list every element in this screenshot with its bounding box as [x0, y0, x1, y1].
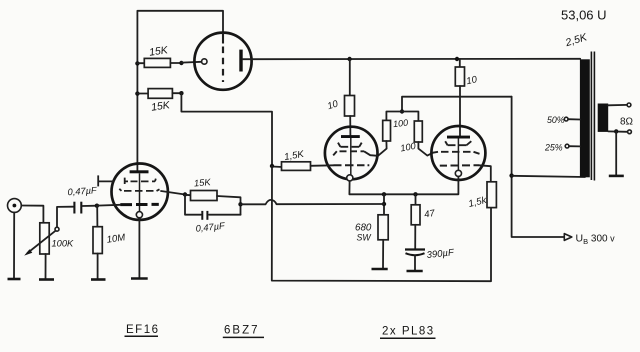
svg-text:2x PL83: 2x PL83	[382, 326, 435, 338]
node B+ rail / PL83 no.2 anode feed	[455, 57, 459, 61]
wire feedback loop (grid node down, along bottom, up to 1,5k)	[272, 166, 491, 281]
g3 bracket PL83 no.1	[338, 143, 362, 147]
node screen network right junction	[238, 202, 242, 206]
resistor R 1,5K (PL83 no.1 grid)	[272, 149, 334, 171]
resistor R 680 SW (cathode bias)	[355, 194, 388, 269]
svg-text:0,47µF: 0,47µF	[195, 221, 226, 234]
svg-text:100: 100	[393, 118, 409, 130]
g2 dashes PL83 no.1	[333, 151, 378, 156]
node B+ / primary bottom junction	[509, 173, 513, 177]
svg-text:0,47µF: 0,47µF	[67, 185, 98, 197]
capacitor C 390uF (electrolytic)	[405, 247, 455, 271]
ground (10M)	[91, 278, 106, 281]
resistor R 1,5k (PL83 no.2 grid, vertical)	[467, 165, 496, 210]
svg-text:100: 100	[399, 141, 417, 154]
svg-text:UB 300 v: UB 300 v	[576, 233, 616, 247]
resistor R 10 (PL83 no.2 anode)	[455, 59, 478, 136]
wire wiper to coupling cap	[57, 207, 73, 228]
wire screen-grid B+ feed (horizontal, crosses no.2 anode wire)	[402, 97, 512, 112]
svg-text:10: 10	[465, 74, 478, 87]
g3 row EF16	[125, 178, 156, 184]
tap 25%	[544, 143, 580, 153]
anode bar EF16	[130, 170, 149, 173]
label 2x PL83	[380, 326, 436, 339]
node grid-drive junction	[270, 164, 274, 168]
svg-text:10: 10	[326, 98, 340, 112]
g1 dashes PL83 no.2	[440, 164, 479, 166]
node anode rail / 15K upper junction	[135, 61, 139, 65]
svg-text:53,06 U: 53,06 U	[561, 8, 607, 23]
tube PL83 no.2	[431, 126, 485, 180]
resistor R 100 (screen, PL83 no.2)	[399, 112, 433, 156]
svg-text:390µF: 390µF	[426, 247, 455, 261]
node 680 top / feedback tap	[382, 202, 386, 206]
input jack J1	[7, 199, 43, 279]
wire B+ vertical to UB arrow	[512, 97, 565, 237]
wire PL83 cathode rail	[349, 177, 458, 195]
svg-text:15K: 15K	[148, 44, 169, 59]
svg-text:100K: 100K	[52, 239, 75, 249]
node 15K lower right junction	[179, 91, 183, 95]
g3 bracket PL83 no.2	[445, 141, 471, 145]
svg-text:25%: 25%	[544, 143, 563, 153]
resistor R 47 (cathode)	[411, 194, 436, 249]
node cathode rail / 47 branch	[413, 192, 417, 196]
grid (dashed) of 6BZ7	[222, 33, 224, 44]
g1 row EF16 (thick)	[120, 203, 159, 206]
ground (680 SW)	[372, 268, 388, 271]
resistor R 15K (upper)	[137, 44, 181, 67]
tap 50%	[547, 115, 580, 125]
secondary output terminals 8 ohm	[608, 103, 633, 134]
svg-text:15K: 15K	[150, 99, 171, 114]
node secondary ground junction	[614, 129, 618, 133]
svg-text:10M: 10M	[106, 232, 126, 245]
node B+ rail / PL83 no.1 anode feed	[347, 57, 351, 61]
node screen network left junction	[183, 192, 187, 196]
anode bar of 6BZ7	[239, 50, 242, 72]
wire 15K upper to 6BZ7 cathode	[181, 61, 201, 64]
internal cathode stem EF16	[139, 173, 141, 211]
anode bar PL83 no.2	[447, 136, 470, 139]
core lines	[590, 52, 592, 181]
svg-text:8Ω: 8Ω	[620, 117, 634, 128]
ground (47 / 390uF)	[407, 270, 423, 273]
transformer T1 output	[580, 52, 608, 181]
tube 6BZ7 (triode, top)	[194, 33, 251, 90]
ground (potentiometer)	[39, 278, 54, 281]
cathode of 6BZ7	[202, 59, 207, 64]
potentiometer R 100K	[24, 223, 74, 279]
node 15K upper right junction	[179, 61, 183, 65]
svg-text:6BZ7: 6BZ7	[224, 325, 260, 337]
wire 15K lower junction down and right to grid-drive node	[181, 93, 272, 166]
wire transformer primary bottom	[512, 176, 585, 177]
cathode circle EF16	[136, 212, 142, 218]
anode bar PL83 no.1	[341, 135, 360, 138]
resistor R 15K (lower)	[137, 89, 181, 114]
svg-text:EF16: EF16	[126, 324, 160, 336]
svg-text:50%: 50%	[547, 115, 565, 125]
svg-text:15K: 15K	[194, 177, 212, 188]
arrow UB 300V	[564, 233, 615, 247]
cathode circle PL83 no.2	[455, 170, 461, 176]
wire EF16 anode rail (left vertical) with top corner	[137, 11, 223, 171]
svg-text:1,5k: 1,5k	[467, 195, 488, 210]
node anode rail / 15K lower junction	[135, 91, 139, 95]
wire network to cathode junction (with hop over feedback wire)	[241, 200, 385, 204]
svg-text:47: 47	[423, 208, 436, 221]
label EF16	[125, 324, 160, 336]
node grid junction	[95, 204, 99, 208]
resistor R 10 (PL83 no.1 anode)	[326, 59, 354, 135]
g2 dashes PL83 no.2	[433, 152, 480, 154]
ground (secondary)	[609, 175, 624, 178]
wire secondary to ground	[615, 131, 617, 176]
wire grid junction to EF16 g1	[97, 204, 120, 207]
ground (input jack)	[8, 278, 21, 281]
node screen feed junction	[400, 109, 404, 113]
wire g3 terminator	[98, 175, 113, 186]
g2 row EF16	[119, 189, 159, 191]
wire EF16 cathode to ground	[138, 218, 140, 279]
secondary winding (solid bar)	[598, 104, 609, 132]
label 6BZ7	[223, 325, 264, 338]
internal cathode stem PL83 no.1	[350, 138, 352, 175]
internal cathode stem PL83 no.2	[457, 139, 459, 171]
cathode circle PL83 no.1	[347, 175, 353, 181]
resistor R 10M (grid leak)	[93, 206, 126, 280]
resistor R 15K (screen network)	[185, 177, 241, 215]
wire 6BZ7 anode B+ rail to transformer	[243, 58, 581, 60]
svg-text:2,5K: 2,5K	[563, 31, 589, 49]
g1 dashes PL83 no.1	[334, 164, 370, 166]
primary winding (solid bar)	[580, 59, 590, 177]
resistor R 100 (screen, PL83 no.1)	[378, 112, 409, 156]
svg-text:SW: SW	[357, 233, 372, 243]
wire EF16 screen exit to 15K network	[161, 191, 185, 195]
ground (EF16 cathode)	[131, 277, 148, 280]
capacitor C 0,47uF (input coupling)	[67, 185, 98, 213]
tube EF16 (pentode, input)	[112, 164, 168, 220]
tube PL83 no.1	[325, 127, 378, 181]
capacitor C 0,47uF (screen network)	[185, 195, 241, 234]
node cathode rail / 680 branch	[382, 192, 386, 196]
